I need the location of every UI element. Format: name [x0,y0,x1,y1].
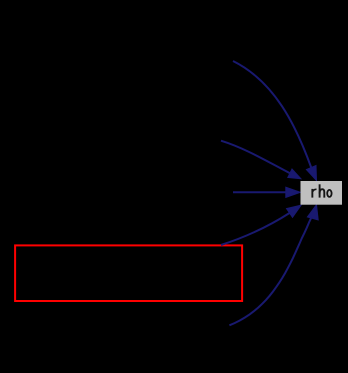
wire: curved edge 4 [221,213,290,245]
edge from caller 2 (hidden) to rho [221,141,301,179]
wire: curved edge 2 [221,141,290,174]
edge from caller 1 (top, hidden) to rho [233,61,317,181]
arrowhead 4 [287,205,302,217]
wire: straight edge 3 [233,191,287,193]
truncated caller node (red outline, label hidden) [15,245,242,301]
edge from red node to rho [221,205,301,245]
arrowhead 5 [307,205,318,220]
label "rho" drawn as vector strokes: letter r [312,184,331,197]
arrowhead 3 [286,187,301,197]
node rho (current function) [301,181,343,205]
letter h [319,184,321,197]
edge from caller 5 (bottom, hidden) to rho [229,205,318,326]
edge from caller 3 (hidden) to rho: straight horizontal [233,187,301,197]
arrowhead 2 [288,169,301,179]
letter o [327,190,331,197]
wire: curved edge 5 [229,218,311,325]
wire: curved edge 1 [233,61,311,168]
arrowhead 1 [306,166,316,181]
